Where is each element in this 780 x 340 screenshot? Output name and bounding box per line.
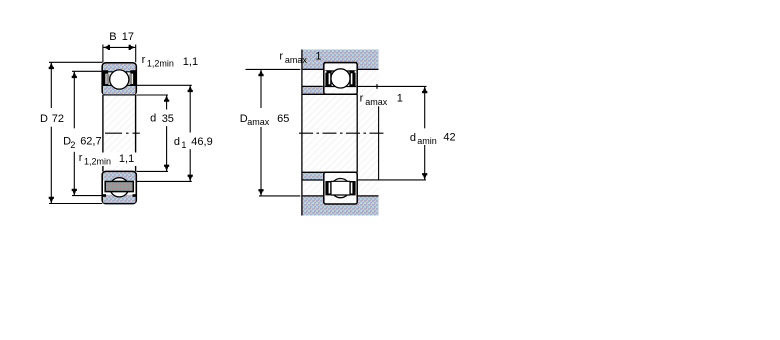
svg-text:r: r [142, 54, 146, 66]
seal bars upper [325, 70, 356, 86]
dimension D 72 [49, 62, 103, 203]
housing shoulder top-right [357, 63, 379, 70]
ball upper [110, 70, 129, 89]
outer ring raceway line [103, 71, 136, 73]
bore line right [135, 95, 137, 171]
bore contact line upper [302, 93, 358, 95]
svg-text:46,9: 46,9 [191, 136, 212, 148]
housing OD contact line [324, 62, 357, 64]
centerline right figure [299, 132, 384, 134]
svg-text:65: 65 [277, 113, 289, 125]
svg-text:d: d [174, 136, 180, 148]
centerline left figure [105, 132, 140, 134]
svg-text:72: 72 [52, 113, 64, 125]
seal notch left lower [103, 194, 106, 197]
svg-text:62,7: 62,7 [80, 135, 101, 147]
housing/shaft left edge line [301, 50, 303, 216]
shield band cover [331, 182, 349, 195]
shaft shoulder upper [302, 86, 323, 94]
shield right (section) [129, 70, 136, 86]
ball lower (right fig) [331, 179, 350, 198]
dimension d1 46,9 [137, 85, 192, 181]
svg-text:1: 1 [397, 93, 403, 105]
svg-text:d: d [150, 113, 156, 125]
bearing lower section body [102, 171, 136, 203]
dimension d 35 [137, 95, 169, 171]
svg-text:1: 1 [181, 140, 186, 150]
bearing upper section body [102, 63, 136, 95]
housing shoulder bottom-right [357, 196, 379, 203]
svg-text:d: d [410, 132, 416, 144]
outer ring upper (blue) [103, 64, 135, 72]
shield left (section) [103, 70, 110, 86]
svg-text:2: 2 [70, 140, 75, 150]
housing band bottom [302, 203, 379, 215]
svg-text:r: r [360, 92, 364, 104]
inner ring lower (blue) [103, 172, 135, 180]
housing shoulder top-left [302, 63, 324, 70]
dimension D2 62,7 [72, 71, 106, 195]
dimension damin 42 [358, 86, 427, 179]
label r1,2min 1,1 (bottom) [78, 153, 137, 167]
svg-text:amax: amax [247, 117, 270, 127]
shaft end line [356, 94, 358, 172]
inner ring raceway line [103, 84, 136, 86]
bearing lower section (right fig) [324, 172, 357, 204]
ramax leader line [378, 106, 380, 180]
dimension B 17 [103, 45, 136, 63]
figure body hatch [302, 50, 379, 216]
bearing upper section (right fig) [324, 63, 357, 95]
ball upper (right fig) [331, 69, 350, 88]
ramax tick (shaft fillet) [376, 84, 378, 89]
inner ring upper (blue) [103, 85, 135, 94]
svg-text:r: r [79, 152, 83, 164]
svg-text:r: r [279, 50, 283, 62]
housing shoulder bottom-left [302, 196, 324, 203]
outer ring lower (blue) [103, 195, 135, 203]
seal notch right lower [133, 194, 136, 197]
bore contact line lower [302, 171, 358, 173]
svg-text:amax: amax [285, 55, 308, 65]
svg-text:amin: amin [417, 136, 437, 146]
svg-text:1,1: 1,1 [183, 56, 198, 68]
housing band top [302, 50, 379, 63]
bore line left [102, 95, 104, 171]
shield face (gray) [105, 181, 133, 191]
svg-text:1,2min: 1,2min [147, 59, 174, 69]
dimension Damax 65 [246, 69, 301, 195]
svg-text:B: B [109, 31, 116, 43]
svg-text:1: 1 [315, 50, 321, 62]
svg-text:amax: amax [365, 97, 388, 107]
shaft shoulder lower [302, 172, 323, 180]
svg-text:D: D [40, 113, 48, 125]
svg-text:1,1: 1,1 [119, 153, 134, 165]
ball lower [110, 178, 129, 197]
seal bars lower [325, 181, 355, 195]
bore region hatch [103, 96, 136, 172]
svg-text:1,2min: 1,2min [84, 156, 111, 166]
svg-text:35: 35 [162, 113, 174, 125]
svg-text:42: 42 [443, 132, 455, 144]
svg-text:17: 17 [122, 31, 134, 43]
